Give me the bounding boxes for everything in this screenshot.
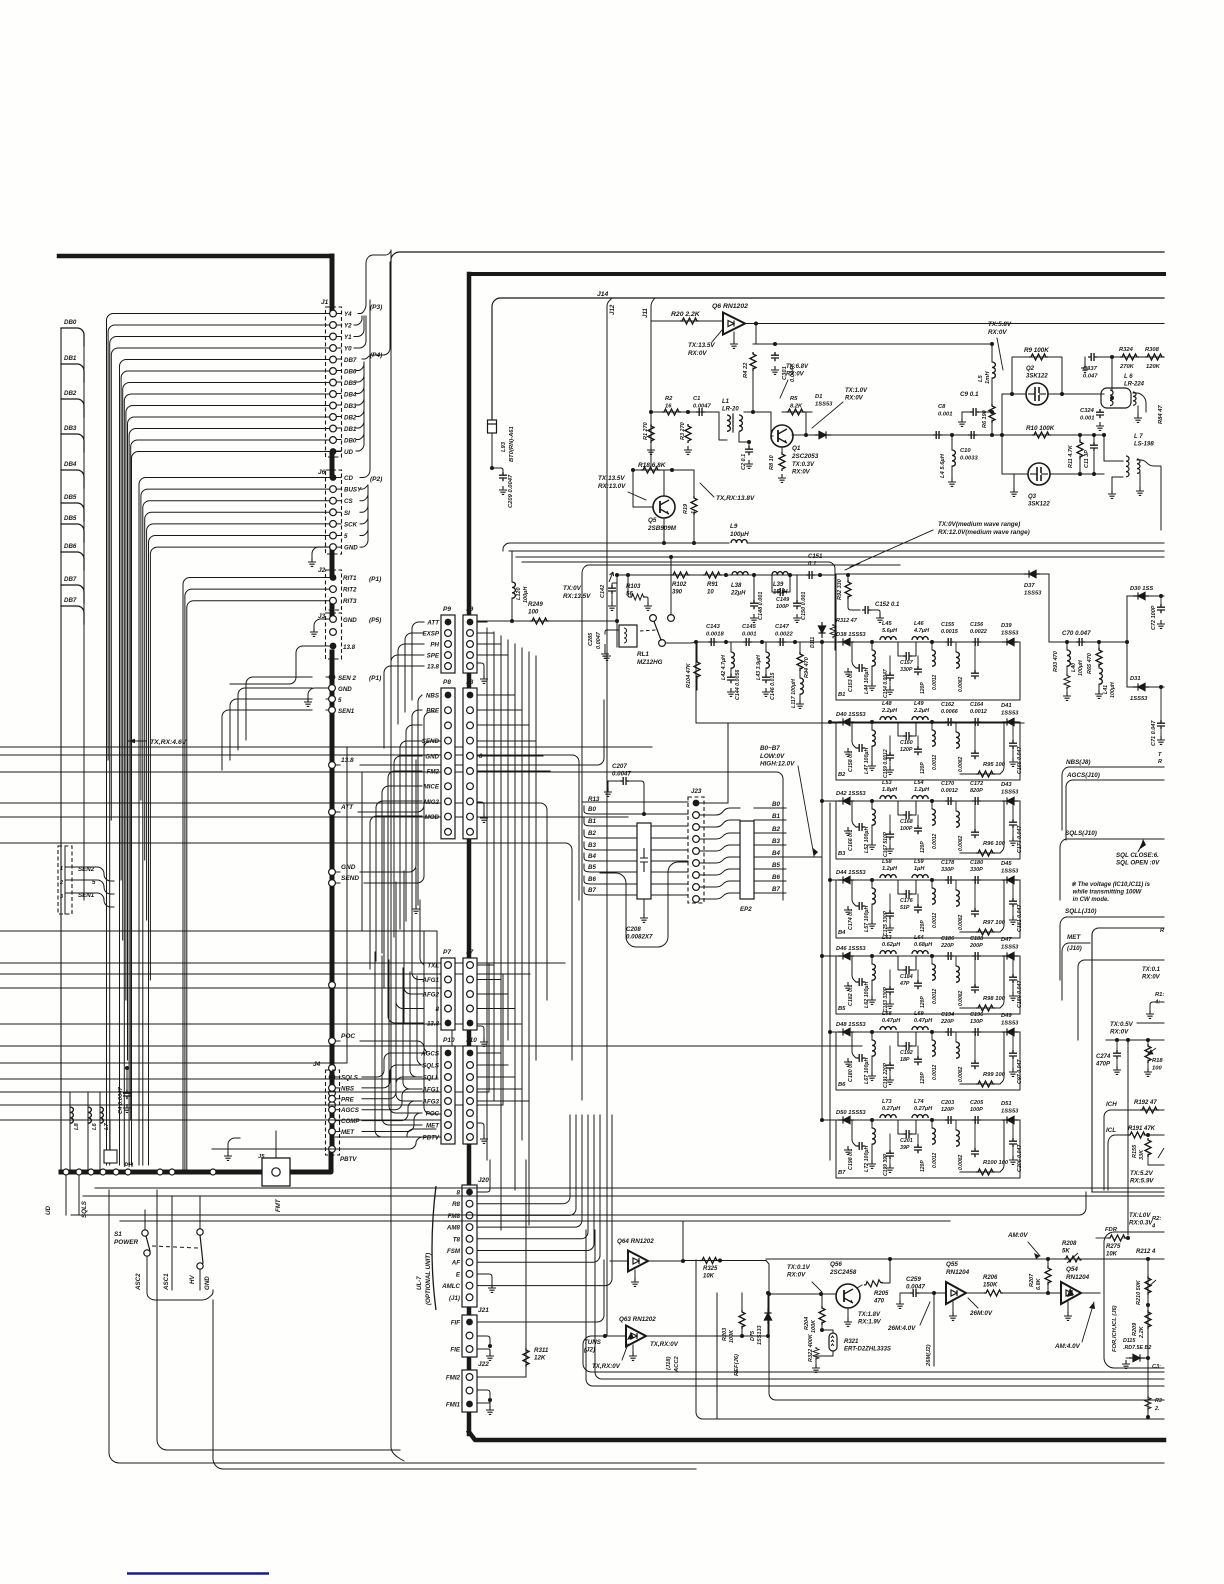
wire J1 DB0 run bbox=[131, 440, 330, 1120]
wire J6 SCK rstub bbox=[336, 523, 341, 525]
wire S1 up a bbox=[144, 1210, 146, 1230]
wire J riser x501 bbox=[500, 636, 502, 1230]
capacitor row B7 c bbox=[971, 1148, 979, 1157]
svg-text:R206150K: R206150K bbox=[983, 1275, 998, 1289]
svg-text:R11 4.7K: R11 4.7K bbox=[1068, 444, 1074, 468]
wire l117 down bbox=[799, 694, 801, 700]
wire R98 100 line bbox=[960, 1007, 1000, 1009]
svg-text:B4: B4 bbox=[838, 930, 846, 936]
svg-text:120P: 120P bbox=[920, 1072, 926, 1084]
inductor L8 bbox=[70, 1107, 73, 1123]
svg-text:C150 0.001: C150 0.001 bbox=[801, 592, 807, 620]
svg-text:D50 1SS53: D50 1SS53 bbox=[836, 1110, 866, 1116]
svg-text:EP2: EP2 bbox=[740, 906, 752, 913]
svg-text:100K: 100K bbox=[811, 1319, 817, 1333]
svg-text:DB0: DB0 bbox=[64, 319, 77, 326]
wire J6 CS run bbox=[143, 501, 330, 1165]
capacitor C168 100P bbox=[903, 811, 912, 819]
connector P7 pin AFG1 bbox=[445, 976, 452, 983]
svg-text:(P5): (P5) bbox=[369, 617, 381, 624]
node FMI1 link bbox=[488, 1398, 492, 1402]
wire arrow 4.6V bbox=[128, 740, 146, 742]
resistor R97 100 bbox=[976, 929, 995, 935]
wire J10 link 1 bbox=[477, 1064, 508, 1066]
wire L57 100µH bottom bbox=[871, 904, 873, 920]
svg-text:R322 400K: R322 400K bbox=[808, 1333, 814, 1362]
svg-text:L8: L8 bbox=[74, 1122, 80, 1130]
capacitor C154 0.0047 bbox=[886, 672, 894, 681]
svg-text:L72 100µH: L72 100µH bbox=[864, 1146, 870, 1172]
connector P8 pin FM2 bbox=[445, 768, 452, 775]
svg-text:C144 0.0056: C144 0.0056 bbox=[735, 670, 741, 700]
wire ICL wire bbox=[1108, 1135, 1128, 1190]
node r325 out bbox=[718, 1259, 722, 1263]
connector J9 pin ATT bbox=[467, 619, 474, 626]
svg-text:R10 100K: R10 100K bbox=[1026, 425, 1055, 432]
wire C11 bottom bbox=[1093, 452, 1095, 474]
connector J9 pin PH bbox=[467, 641, 474, 648]
wire row B4 main bbox=[836, 879, 1020, 881]
svg-text:8: 8 bbox=[436, 1006, 440, 1013]
node Q5 em bbox=[662, 541, 666, 545]
wire L4 lead bbox=[951, 435, 953, 450]
inductor L93 bar bbox=[488, 423, 497, 425]
connector J8 pin MIG2 bbox=[467, 798, 474, 805]
svg-text:FM8: FM8 bbox=[448, 1213, 461, 1220]
inductor L58 bbox=[880, 875, 896, 878]
wire left horizontal y1105 bbox=[0, 1104, 503, 1106]
svg-text:DB4: DB4 bbox=[344, 392, 357, 399]
wire bundle turn B bbox=[213, 1300, 696, 1469]
wire DB6 stub bbox=[61, 552, 84, 570]
wire J9 link 3 bbox=[477, 654, 508, 656]
svg-text:FM2: FM2 bbox=[427, 769, 440, 776]
svg-text:PRE: PRE bbox=[426, 708, 440, 715]
wire thick J bus bbox=[467, 274, 472, 1434]
svg-text:J11: J11 bbox=[642, 308, 649, 318]
node row feed B5 bbox=[820, 954, 824, 958]
connector J4 pin PRE bbox=[329, 1095, 336, 1102]
wire C198 0.1 loop bbox=[852, 1120, 856, 1146]
wire mid coil lead B2 bbox=[931, 722, 933, 730]
svg-text:120P: 120P bbox=[920, 762, 926, 774]
wire P7 feed 0 bbox=[420, 900, 424, 965]
connector J8 pin 9 bbox=[467, 828, 474, 835]
resistor R208 bbox=[1064, 1253, 1082, 1263]
ground Q54 bbox=[1064, 1312, 1072, 1320]
wire row1 tail bbox=[815, 574, 836, 576]
svg-text:DB6: DB6 bbox=[64, 543, 77, 550]
wire DB1 stub bbox=[61, 364, 84, 382]
switch S1 contact b bbox=[197, 1229, 203, 1235]
wire R5 to D1 bbox=[805, 412, 807, 435]
ground Q6 bbox=[730, 340, 738, 348]
wire left curve a bbox=[0, 803, 547, 1000]
svg-text:Y0: Y0 bbox=[344, 346, 352, 353]
svg-text:C180330P: C180330P bbox=[970, 860, 983, 873]
svg-text:CS: CS bbox=[344, 498, 353, 505]
capacitor C164 0.0012 bbox=[972, 718, 981, 726]
component R321 varistor bbox=[829, 1333, 837, 1351]
svg-text:8: 8 bbox=[457, 1190, 461, 1197]
wire r104 leads2 bbox=[696, 676, 698, 690]
inductor L43 bbox=[766, 652, 769, 668]
connector bus pin sen3 bbox=[329, 707, 336, 714]
svg-text:C196130P: C196130P bbox=[970, 1012, 984, 1025]
wire C183 330P lead bbox=[889, 970, 891, 986]
node L93 bottom bbox=[490, 466, 494, 470]
wire left horizontal y747 bbox=[0, 746, 652, 748]
wire R5 row bbox=[782, 411, 812, 413]
resistor R3x bbox=[1145, 1396, 1151, 1410]
wire C168 100P loop2 bbox=[912, 801, 916, 815]
svg-text:(J10): (J10) bbox=[1067, 945, 1082, 952]
wire C9 to L5 bbox=[979, 411, 992, 413]
wire DB5 riser bbox=[336, 381, 341, 383]
svg-text:R3: R3 bbox=[1155, 1398, 1162, 1404]
wire D1 out bbox=[831, 434, 940, 436]
wire l43-c146 bbox=[765, 668, 767, 674]
wire q56 base line bbox=[769, 1293, 836, 1295]
svg-text:MET: MET bbox=[341, 1129, 355, 1136]
wire rl1 to row2 bbox=[665, 642, 696, 643]
svg-text:FSM: FSM bbox=[447, 1248, 461, 1255]
wire J gnd stub y816 bbox=[483, 808, 485, 814]
node c274 bbox=[1115, 1038, 1119, 1042]
svg-text:0.0082: 0.0082 bbox=[958, 835, 964, 851]
svg-text:FIE: FIE bbox=[450, 1347, 460, 1354]
wire P10 feed 7 bbox=[375, 952, 422, 1137]
wire SEN conn 0 bbox=[65, 867, 114, 881]
wire J gnd stub y1040 bbox=[483, 1032, 485, 1038]
inductor row B1 mid bbox=[932, 650, 935, 666]
wire d115 left bbox=[1126, 1357, 1129, 1359]
svg-text:L41: L41 bbox=[1103, 685, 1109, 694]
capacitor row B2 extra bbox=[914, 746, 922, 755]
wire Q1 emitter bbox=[781, 447, 783, 452]
svg-text:100µH: 100µH bbox=[523, 586, 529, 603]
wire r155 link bbox=[1148, 1164, 1164, 1166]
wire C206 0.047 bot bbox=[1012, 1148, 1014, 1156]
svg-text:B5: B5 bbox=[838, 1006, 846, 1012]
svg-text:C167 510P: C167 510P bbox=[883, 831, 889, 857]
wire q54 in bbox=[1048, 1292, 1061, 1294]
connector J1 pin DB3 bbox=[330, 402, 337, 409]
wire GND stub J6 bbox=[312, 547, 330, 558]
connector P8 pin SEND bbox=[445, 737, 452, 744]
wire b5 route bbox=[600, 862, 688, 947]
wire L62 100µH top bbox=[871, 956, 873, 964]
inductor L42 bbox=[731, 652, 734, 668]
node L1C2 bbox=[747, 440, 751, 444]
wire annot mw2 bbox=[845, 563, 860, 570]
ground R1 bbox=[647, 446, 655, 454]
wire R97 100 up bbox=[1000, 880, 1004, 932]
connector J1 pin DB5 bbox=[330, 379, 337, 386]
wire return bus 4 bbox=[120, 1220, 950, 1222]
wire C181 0.047 top bbox=[1012, 880, 1014, 898]
ground L117 bbox=[796, 700, 804, 708]
wire c208 gnd lead bbox=[643, 899, 645, 914]
wire R100 100 up bbox=[1000, 1120, 1004, 1172]
capacitor C166 0.1 bbox=[856, 823, 865, 831]
wire Q1 base bbox=[770, 412, 772, 436]
svg-text:R98 100: R98 100 bbox=[983, 996, 1006, 1002]
capacitor C9 bbox=[970, 408, 979, 416]
svg-text:GND: GND bbox=[341, 864, 356, 871]
wire DB-1 riser b bbox=[356, 362, 364, 451]
wire DB7 stub bbox=[61, 606, 84, 624]
connector J23 pin 0 bbox=[693, 812, 700, 819]
svg-text:TX:0V(medium wave range)RX:12.: TX:0V(medium wave range)RX:12.0V(medium … bbox=[938, 521, 1030, 536]
svg-text:B6: B6 bbox=[772, 874, 780, 881]
wire ASC1 drop bbox=[171, 1196, 173, 1290]
capacitor C203 120P bbox=[945, 1116, 954, 1124]
diode D30 bbox=[1133, 592, 1149, 599]
svg-text:B0: B0 bbox=[588, 806, 596, 813]
wire cq gnd lead B1 bbox=[889, 682, 891, 686]
wire J20 AF right bbox=[477, 1115, 600, 1262]
wire J1 Y1 run bbox=[110, 337, 330, 1166]
diode D111 bbox=[818, 622, 825, 638]
connector bus pin sen2 bbox=[329, 696, 336, 703]
wire J1 UD run bbox=[132, 452, 330, 1166]
connector J20 pin T8 bbox=[466, 1235, 473, 1242]
svg-text:C142: C142 bbox=[600, 585, 606, 598]
wire row B2 box bbox=[836, 722, 1020, 780]
svg-text:TX:L0VRX:0.3V: TX:L0VRX:0.3V bbox=[1129, 1212, 1153, 1227]
ground row B7 b bbox=[886, 1164, 894, 1172]
svg-text:C3:: C3: bbox=[1152, 1364, 1161, 1370]
svg-text:J23: J23 bbox=[691, 788, 702, 795]
connector P10 pin AFG1 bbox=[445, 1086, 452, 1093]
wire Q5 emitter bbox=[663, 518, 665, 543]
wire P8 feed 1 bbox=[412, 710, 422, 913]
svg-text:C154 0.0047: C154 0.0047 bbox=[883, 669, 889, 698]
wire J4 to P10 1 bbox=[362, 1065, 422, 1088]
svg-text:C175 330P: C175 330P bbox=[883, 910, 889, 936]
wire r104 leads bbox=[696, 642, 698, 660]
svg-text:FDR: FDR bbox=[1105, 1227, 1118, 1233]
wire r191 right bbox=[1144, 1134, 1164, 1136]
wire R11 links2 bbox=[1079, 456, 1081, 474]
inductor L64 bbox=[912, 951, 928, 954]
resistor R94 bbox=[797, 652, 803, 671]
wire d75 top bbox=[767, 1293, 769, 1308]
wire row B7 box bbox=[836, 1120, 1020, 1178]
wire rl1 b up bbox=[670, 557, 672, 614]
wire thick bus seg2 bbox=[330, 454, 335, 475]
connector J23 pin 2 bbox=[693, 836, 700, 843]
svg-text:D42 1SS53: D42 1SS53 bbox=[836, 791, 866, 797]
wire C9 wire bbox=[962, 411, 970, 413]
wire J riser x529 bbox=[528, 652, 530, 1225]
wire B0 line bbox=[584, 806, 688, 814]
wire mesh vertical x384 bbox=[383, 817, 385, 988]
wire B4 run bbox=[786, 856, 822, 858]
svg-text:R155: R155 bbox=[1132, 1144, 1138, 1158]
wire J21 FIF right bbox=[477, 1260, 604, 1322]
wire J23-EP2 3 bbox=[699, 845, 740, 851]
capacitor C2 bbox=[745, 446, 753, 455]
wire band y557 bbox=[516, 556, 1164, 558]
node sql arrow bbox=[1140, 839, 1146, 849]
wire J4 pin stub 1 bbox=[335, 1087, 340, 1089]
svg-text:C72 100P: C72 100P bbox=[1151, 605, 1157, 630]
capacitor row B6 c bbox=[971, 1060, 979, 1069]
wire L7 prim gnd lead bbox=[1111, 477, 1113, 490]
switch S1 blade 1 bbox=[146, 1236, 150, 1251]
wire C180 0.1 loop bbox=[852, 1032, 856, 1058]
wire J6 5 run bbox=[149, 536, 330, 1166]
inductor L5 bbox=[992, 362, 995, 378]
node row2 b bbox=[724, 640, 728, 644]
svg-text:TX:5.2VRX:5.9V: TX:5.2VRX:5.9V bbox=[1130, 1170, 1154, 1185]
svg-text:R3 270: R3 270 bbox=[680, 422, 686, 440]
ground C158 0.1 bbox=[844, 748, 852, 756]
wire J1 DB7 run bbox=[120, 360, 330, 1166]
connector P10 pin PBTV bbox=[445, 1134, 452, 1141]
capacitor C143 bbox=[708, 638, 717, 646]
wire mesh vertical x424 bbox=[423, 931, 425, 1105]
node r11 top bbox=[1078, 433, 1082, 437]
wire c207 row bbox=[608, 780, 620, 782]
resistor R275 bbox=[1108, 1235, 1127, 1241]
wire L6 sec out bbox=[1133, 393, 1146, 412]
wire J6 SCK rise bbox=[360, 485, 368, 524]
svg-text:C285: C285 bbox=[588, 632, 594, 646]
capacitor C147 bbox=[777, 638, 786, 646]
wire sen1 run bbox=[326, 687, 329, 689]
svg-text:(J18): (J18) bbox=[666, 1356, 672, 1370]
svg-text:13.8: 13.8 bbox=[341, 757, 354, 764]
wire L7 lead bbox=[99, 1093, 101, 1172]
wire MET up bbox=[407, 1129, 436, 1137]
resistor R155 bbox=[1145, 1138, 1151, 1157]
svg-text:GND: GND bbox=[204, 1276, 211, 1290]
connector J3 dashed box bbox=[326, 613, 342, 659]
connector J6 pin CD bbox=[330, 474, 337, 481]
diode D51 bbox=[1002, 1116, 1018, 1123]
wire send gnd lead bbox=[415, 868, 417, 905]
node mid B7 bbox=[930, 1118, 934, 1122]
capacitor C153 0.1 bbox=[856, 664, 865, 672]
svg-text:(P2): (P2) bbox=[370, 476, 382, 483]
capacitor C1 bbox=[696, 408, 705, 416]
svg-text:26M:4.0V: 26M:4.0V bbox=[887, 1325, 916, 1332]
wire bundle turn A bbox=[109, 1190, 1164, 1463]
connector J2 dashed box bbox=[326, 570, 342, 610]
connector J3 pin mid bbox=[330, 629, 337, 636]
wire cq gnd lead B4 bbox=[889, 920, 891, 924]
wire P9 feed 2 bbox=[398, 644, 424, 724]
wire J3 13.8 run bbox=[230, 646, 330, 684]
wire GND stub bbox=[335, 871, 340, 873]
wire J20 T8 right bbox=[477, 1115, 588, 1239]
svg-text:C146 0.015: C146 0.015 bbox=[770, 672, 776, 700]
node r212 bbox=[1146, 1257, 1150, 1261]
wire c lead B3 bbox=[974, 801, 976, 829]
node bus feedthrough x79 bbox=[76, 1169, 82, 1175]
svg-text:13.8: 13.8 bbox=[427, 1021, 440, 1028]
resistor R96 100 bbox=[976, 850, 995, 856]
node R9 r bbox=[1060, 392, 1064, 396]
wire J6 BUSY rise bbox=[360, 485, 368, 489]
svg-text:DB0: DB0 bbox=[344, 438, 357, 445]
resistor R325 bbox=[700, 1258, 719, 1264]
wire J gnd bend y1040 bbox=[477, 1026, 484, 1032]
wire P3 riser b bbox=[358, 251, 391, 314]
connector J1 dashed box bbox=[326, 307, 342, 457]
connector J9 pin EXSP bbox=[467, 630, 474, 637]
wire R4 down bbox=[752, 368, 754, 412]
inductor L53 bbox=[880, 796, 896, 799]
svg-text:L57 100µH: L57 100µH bbox=[864, 906, 870, 932]
connector J23 pin 7 bbox=[693, 896, 700, 903]
capacitor C208 symbol bbox=[640, 848, 648, 872]
ground row B1 a bbox=[868, 682, 876, 690]
svg-text:DB4: DB4 bbox=[64, 461, 77, 468]
connector J1 pin DB6 bbox=[330, 368, 337, 375]
ground J y677 bbox=[480, 675, 488, 683]
svg-text:J4: J4 bbox=[313, 1061, 321, 1068]
svg-text:0.0082: 0.0082 bbox=[958, 1066, 964, 1082]
wire annot 26m0 bbox=[968, 1298, 978, 1308]
wire R324 row bbox=[1097, 356, 1164, 358]
wire Q3 gate feed bbox=[1002, 435, 1028, 474]
svg-text:C168100P: C168100P bbox=[900, 819, 913, 832]
connector J10 pin POC bbox=[467, 1110, 474, 1117]
wire C9 lead bbox=[961, 412, 963, 418]
svg-text:DB3: DB3 bbox=[344, 403, 357, 410]
connector J6 pin SCK bbox=[330, 521, 337, 528]
wire r322 gnd lead bbox=[815, 1358, 817, 1364]
wire c lead B1 bbox=[974, 642, 976, 670]
wire row feed B3 bbox=[822, 800, 836, 802]
wire annot q5b bbox=[628, 492, 646, 500]
svg-text:TX:0.1RX:0V: TX:0.1RX:0V bbox=[1142, 967, 1161, 981]
wire mid coil lead B7 bbox=[931, 1120, 933, 1128]
wire cq gnd lead B3 bbox=[889, 841, 891, 845]
svg-text:R19: R19 bbox=[683, 503, 689, 514]
diode D47 bbox=[1002, 952, 1018, 959]
svg-text:P9: P9 bbox=[443, 606, 451, 613]
node mid B3 bbox=[930, 799, 934, 803]
svg-text:R204: R204 bbox=[804, 1317, 810, 1330]
wire C192 18P loop bbox=[898, 1032, 903, 1046]
wire SEN conn 2 bbox=[65, 893, 114, 907]
wire C4 lead bbox=[126, 1068, 128, 1090]
capacitor C159 0.0012 bbox=[886, 752, 894, 761]
svg-text:R8 10: R8 10 bbox=[769, 455, 775, 470]
connector J6 dashed box bbox=[326, 470, 342, 554]
svg-text:120P: 120P bbox=[920, 841, 926, 853]
svg-text:Y1: Y1 bbox=[344, 334, 352, 341]
wire r94 top bbox=[799, 642, 801, 652]
inductor L39 bbox=[772, 572, 788, 575]
wire R20 line bbox=[651, 320, 723, 322]
svg-text:P7: P7 bbox=[443, 949, 451, 956]
connector P10 pin AGCS bbox=[445, 1050, 452, 1057]
inductor L62 100µH bbox=[872, 964, 875, 980]
wire L57 100µH top bbox=[871, 880, 873, 888]
node d75 bot bbox=[766, 1334, 770, 1338]
wire C165 0.047 bot bbox=[1012, 750, 1014, 758]
connector P10 pin SQLL bbox=[445, 1074, 452, 1081]
svg-text:C301: C301 bbox=[782, 366, 788, 380]
svg-text:R65 470: R65 470 bbox=[1087, 653, 1093, 674]
wire DB-1 riser bbox=[336, 450, 341, 452]
